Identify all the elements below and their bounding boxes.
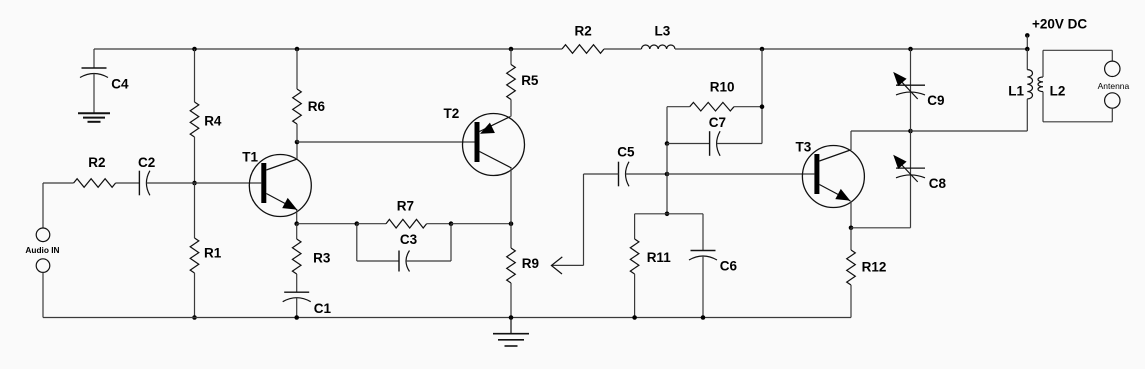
svg-text:L1: L1 [1008,84,1024,99]
wire [634,214,636,239]
node [295,47,300,52]
svg-text:C7: C7 [709,115,726,130]
capacitor C7 [709,115,726,156]
wire [667,106,690,108]
wire [850,228,852,250]
wire [702,214,704,251]
capacitor C5 [617,145,635,187]
wire [1043,121,1112,123]
node [192,315,197,320]
wire [296,124,298,142]
wire [296,210,298,224]
node [701,315,706,320]
svg-text:L3: L3 [655,24,671,39]
svg-text:R7: R7 [397,198,414,213]
node [294,221,299,226]
wire [195,182,262,184]
label Audio IN [25,245,59,255]
wire [850,131,852,150]
resistor R2 [74,155,116,187]
wire [510,49,512,65]
wire [1042,92,1044,122]
node [355,221,360,226]
transistor T2 [444,106,525,176]
wire [584,173,619,175]
node [665,212,670,217]
svg-text:C3: C3 [400,232,418,247]
wire [666,107,668,144]
inductor L2 [1038,77,1065,99]
resistor R4 [190,102,222,137]
wire [296,274,298,292]
svg-text:R5: R5 [521,73,539,88]
node [665,141,670,146]
svg-text:R10: R10 [710,80,735,95]
node [1025,47,1030,52]
wire [194,273,196,318]
node [665,172,670,177]
wire [43,182,74,184]
wire [510,283,512,318]
wire [406,260,451,262]
resistor R1 [190,238,222,273]
wire [194,183,196,238]
wire [635,213,703,215]
node [294,315,299,320]
node [192,47,197,52]
+20V DC supply [1025,17,1087,50]
node [192,181,197,186]
capacitor C1 [283,292,332,316]
wire [1042,50,1044,77]
node [760,47,765,52]
wire [702,256,704,318]
svg-text:T2: T2 [444,106,460,121]
inductor L1 [1008,70,1032,99]
wire [675,48,1027,50]
terminal Audio IN bottom [36,259,50,273]
terminal antenna top [1105,61,1120,76]
capacitor C2 [138,155,155,195]
node [295,140,300,145]
wire [296,142,298,159]
svg-text:R2: R2 [88,155,105,170]
svg-text:+20V DC: +20V DC [1032,17,1087,32]
wire [510,100,512,117]
capacitor C4 [80,49,129,113]
svg-text:C4: C4 [111,77,129,92]
annotation arrow [551,174,583,274]
svg-text:Audio IN: Audio IN [25,245,59,255]
wire [296,224,298,239]
variable capacitor C9 [893,72,944,108]
resistor R12 [847,250,887,285]
wire [146,182,194,184]
wire [43,317,851,319]
node [908,47,913,52]
resistor R7 [386,198,427,228]
wire [1043,49,1112,51]
wire [296,298,298,318]
wire [1111,50,1113,61]
node [509,47,514,52]
svg-text:R3: R3 [313,251,331,266]
wire [194,137,196,183]
svg-text:T1: T1 [242,150,258,165]
label Antenna [1098,81,1130,91]
wire [667,143,710,145]
wire [604,48,641,50]
resistor R6 [293,89,326,124]
wire [666,144,668,175]
ground [78,113,110,122]
wire [356,224,358,261]
wire [510,168,512,224]
wire [761,49,763,144]
wire [634,274,636,318]
svg-text:C8: C8 [929,176,947,191]
wire [297,223,357,225]
wire [626,173,668,175]
node [849,226,854,231]
wire [850,285,852,318]
wire [451,223,511,225]
wire [850,201,852,228]
wire [42,183,44,228]
transistor T1 [242,150,311,217]
wire [296,49,298,89]
wire [427,223,451,225]
wire [357,223,386,225]
wire [510,224,512,248]
svg-text:C6: C6 [720,259,738,274]
wire [1111,108,1113,122]
wire [851,227,911,229]
svg-text:L2: L2 [1050,84,1066,99]
capacitor C3 [399,232,418,271]
svg-text:C9: C9 [927,93,944,108]
wire [910,49,912,131]
node [632,315,637,320]
svg-text:R9: R9 [522,256,539,271]
capacitor C6 [689,251,738,274]
resistor R10 [690,80,735,112]
resistor R9 [507,248,539,283]
resistor R3 [292,239,330,274]
wire [911,130,1028,132]
node [449,221,454,226]
wire [357,260,399,262]
terminal Audio IN top [36,228,50,242]
wire [1026,99,1028,131]
transistor T3 [796,140,865,208]
wire [666,174,668,214]
svg-text:R12: R12 [862,260,887,275]
wire [851,130,911,132]
svg-text:C5: C5 [617,145,635,160]
wire [717,143,762,145]
ground [493,318,529,347]
svg-text:C2: C2 [138,155,155,170]
resistor R11 [630,239,671,274]
svg-text:R6: R6 [308,99,326,114]
wire [42,272,44,317]
node [760,104,765,109]
svg-text:T3: T3 [796,140,812,155]
wire [194,49,196,102]
terminal antenna bottom [1105,93,1120,108]
wire [1026,49,1028,70]
svg-text:R1: R1 [204,246,222,261]
wire [94,48,562,50]
wire [297,141,475,143]
svg-text:Antenna: Antenna [1098,81,1130,91]
wire [450,224,452,261]
svg-text:R4: R4 [204,114,222,129]
svg-text:R11: R11 [647,250,672,265]
wire [667,173,814,175]
node [509,315,514,320]
resistor R5 [507,65,539,100]
variable capacitor C8 [893,155,946,191]
svg-text:R2: R2 [575,24,592,39]
resistor R2 [562,24,604,54]
node [509,221,514,226]
svg-text:C1: C1 [314,301,332,316]
node [908,129,913,134]
wire [734,106,762,108]
wire [116,182,140,184]
wire [910,131,912,228]
inductor L3 [641,24,675,50]
